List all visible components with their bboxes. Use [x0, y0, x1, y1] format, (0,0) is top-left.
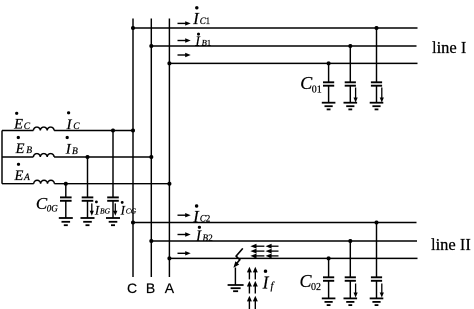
wire line I phase B — [151, 45, 416, 47]
svg-text:B: B — [146, 280, 155, 296]
svg-text:I: I — [195, 228, 202, 245]
label E_C — [13, 112, 31, 133]
junction node line II C at bus C — [131, 221, 135, 225]
capacitor C02 phase B — [345, 241, 356, 298]
junction node C0G C tap — [111, 129, 115, 133]
label I_B — [65, 136, 78, 158]
ground of C0G phase A — [59, 218, 73, 225]
svg-text:C: C — [127, 280, 137, 296]
junction node C01 A tap — [327, 61, 331, 65]
label I_B2 — [195, 226, 213, 245]
label I_C — [66, 111, 81, 133]
svg-text:B: B — [26, 146, 32, 156]
label C_02 — [299, 271, 321, 293]
capacitor C0G phase C leg — [107, 131, 119, 219]
label E_A — [13, 163, 30, 184]
svg-text:1: 1 — [207, 38, 211, 48]
junction node C02 B tap — [348, 239, 352, 243]
current arrow I_A2 (unlabeled) — [178, 251, 191, 255]
capacitor C02 phase A — [323, 258, 334, 298]
capacitor C02 phase C — [371, 223, 382, 299]
ground of C01 phase B — [344, 103, 358, 110]
label C_01 — [300, 73, 322, 96]
current arrow I_B1 — [178, 38, 191, 42]
source E_C phase wire with inductor — [2, 127, 133, 130]
svg-text:2: 2 — [208, 233, 213, 243]
junction node C01 C tap — [375, 26, 379, 30]
fault current I_f up arrows — [247, 267, 258, 309]
svg-text:CG: CG — [126, 207, 137, 216]
svg-text:E: E — [15, 141, 25, 157]
svg-text:BG: BG — [100, 207, 111, 216]
svg-text:A: A — [165, 280, 175, 296]
wire left neutral rail — [1, 131, 3, 184]
current arrow I_A1 (unlabeled) — [178, 53, 191, 57]
ground of C02 phase C — [370, 298, 384, 305]
ground of C0G phase B — [81, 218, 95, 225]
current arrow at C01 phase C cap (down) — [380, 88, 384, 103]
wire line II phase A — [169, 257, 417, 259]
svg-text:C: C — [24, 122, 31, 132]
current arrow I_B2 — [178, 232, 191, 236]
junction node C02 A tap — [327, 256, 331, 260]
label I_CG — [120, 201, 137, 218]
svg-text:C: C — [73, 122, 80, 132]
current arrow at C01 phase B cap (down) — [354, 88, 358, 103]
junction node C01 B tap — [348, 44, 352, 48]
svg-text:I: I — [66, 117, 73, 133]
capacitor C0G phase A leg — [60, 184, 72, 218]
junction node line I C at bus C — [131, 26, 135, 30]
svg-text:I: I — [65, 142, 72, 158]
current arrow at C02 phase C cap (down) — [380, 284, 384, 298]
svg-text:02: 02 — [311, 282, 321, 293]
svg-text:01: 01 — [312, 84, 322, 95]
junction node E_C at bus C — [131, 129, 135, 133]
svg-text:0G: 0G — [47, 204, 59, 214]
junction node line II A at bus A — [167, 256, 171, 260]
svg-text:f: f — [271, 281, 276, 292]
capacitor C0G phase B leg — [82, 157, 94, 218]
current arrow I_BG (down) — [90, 203, 94, 215]
ground of C0G phase C — [106, 218, 120, 225]
junction node E_B at bus B — [149, 155, 153, 159]
svg-text:B: B — [72, 147, 78, 157]
junction node C02 C tap — [375, 221, 379, 225]
source E_B phase wire with inductor — [2, 154, 151, 157]
junction node C0G A tap — [64, 182, 68, 186]
svg-text:line I: line I — [432, 38, 466, 57]
svg-text:E: E — [13, 117, 23, 133]
label I_BG — [94, 201, 111, 218]
wire line I phase A — [169, 62, 417, 64]
label E_B — [15, 136, 33, 157]
label I_f — [262, 270, 276, 293]
zero sequence return arrows cluster 2 (left-pointing) — [266, 244, 279, 258]
svg-text:I: I — [120, 203, 126, 218]
wire line II phase B — [151, 240, 417, 242]
junction node E_A at bus A — [167, 182, 171, 186]
ground of C01 phase C — [370, 103, 384, 110]
svg-text:I: I — [262, 273, 270, 293]
svg-text:2: 2 — [206, 214, 211, 224]
capacitor C01 phase A — [323, 63, 334, 102]
bus B — [150, 19, 152, 278]
current arrow I_CG (down) — [113, 203, 117, 215]
wire line I phase C — [133, 27, 418, 29]
wire line II phase C — [133, 222, 417, 224]
svg-text:E: E — [13, 168, 23, 184]
label C_0G — [36, 194, 58, 214]
bus C — [132, 19, 134, 278]
ground of fault — [228, 285, 244, 291]
svg-text:1: 1 — [206, 16, 211, 26]
junction node C0G B tap — [86, 155, 90, 159]
junction node line I B at bus B — [149, 44, 153, 48]
label I_B1 — [194, 33, 211, 49]
source E_A phase wire with inductor — [2, 180, 169, 183]
fault lightning bolt — [233, 248, 242, 285]
capacitor C01 phase B — [345, 46, 356, 103]
current arrow I_C1 — [178, 21, 191, 25]
current arrow at C02 phase B cap (down) — [354, 284, 358, 298]
label I_C1 — [192, 6, 210, 28]
svg-text:A: A — [23, 173, 30, 183]
svg-text:line II: line II — [431, 235, 471, 254]
ground of C02 phase A — [322, 298, 336, 305]
label I_C2 — [192, 204, 210, 226]
ground of C02 phase B — [344, 298, 358, 305]
svg-text:I: I — [94, 203, 100, 218]
ground of C01 phase A — [322, 103, 336, 110]
capacitor C01 phase C — [371, 28, 382, 103]
junction node line II B at bus B — [149, 239, 153, 243]
current arrow I_C2 — [178, 213, 191, 217]
bus A — [168, 19, 170, 278]
zero sequence return arrows cluster 1 (left-pointing) — [250, 244, 264, 258]
junction node line I A at bus A — [167, 61, 171, 65]
